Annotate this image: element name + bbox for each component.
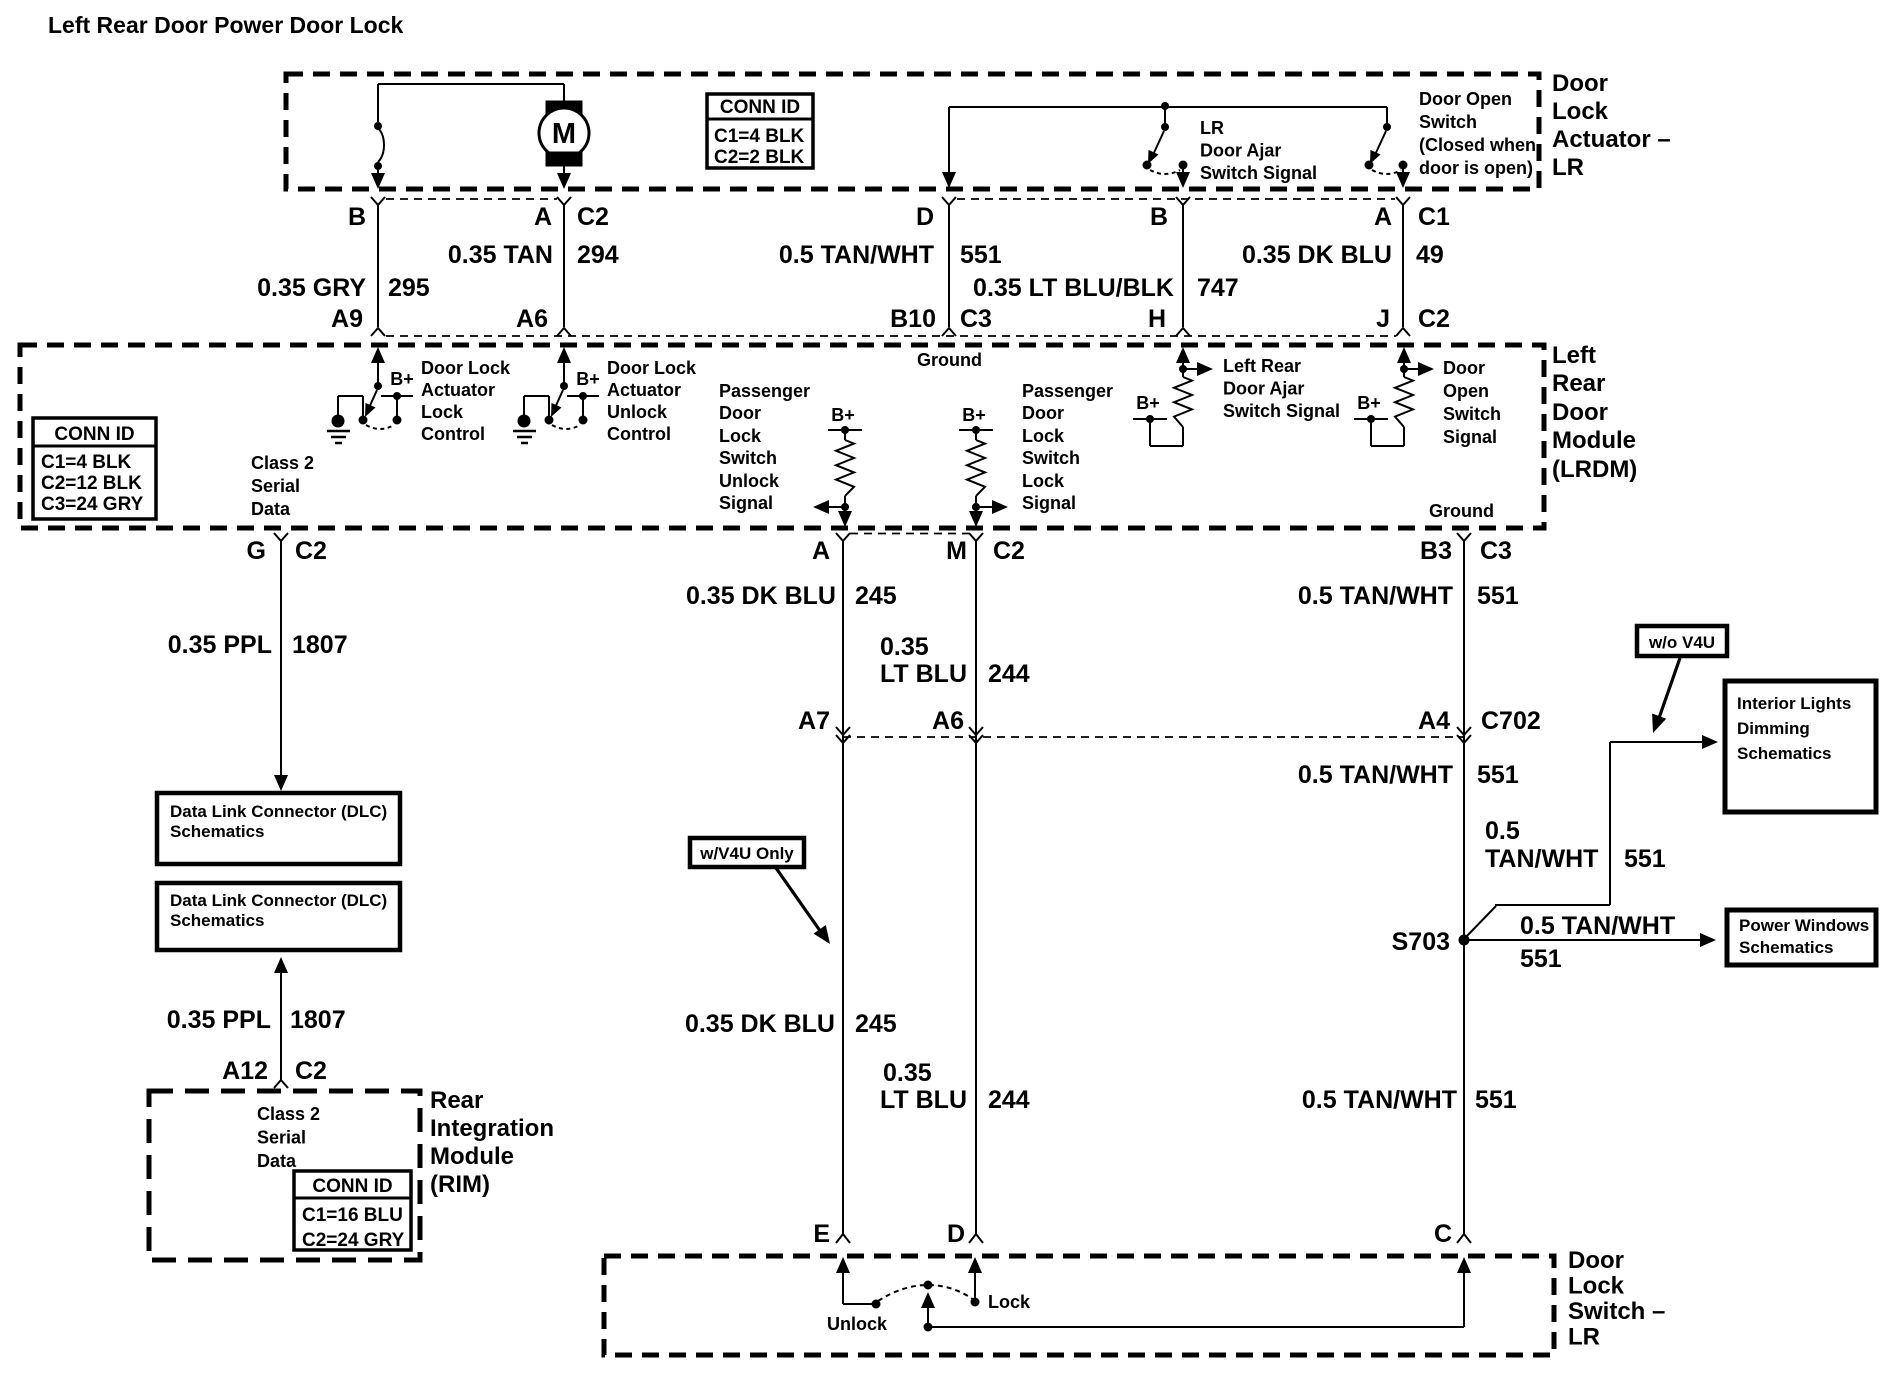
svg-text:244: 244 — [988, 660, 1030, 688]
svg-text:LT BLU: LT BLU — [880, 660, 967, 688]
annotation: LR Door Ajar Switch Signal — [1200, 118, 1317, 183]
wire: branch to interior lights dimming — [1464, 735, 1718, 939]
svg-text:0.35 PPL: 0.35 PPL — [167, 1006, 271, 1034]
label 0.35 DK BLU 245 (lower) — [685, 1010, 897, 1038]
svg-text:C1=4 BLK: C1=4 BLK — [41, 452, 132, 473]
svg-text:Data: Data — [251, 499, 291, 519]
B+ supply (unlock control) — [576, 369, 600, 389]
label 0.35 LT BLU 244 (upper) — [880, 633, 1030, 688]
svg-text:Signal: Signal — [1022, 493, 1076, 513]
leader arrow from w/o V4U to interior lights branch — [1652, 658, 1680, 733]
conn id table (C1=16 BLU / C2=24 GRY) — [294, 1171, 411, 1251]
wire 551 TAN/WHT (ground return) — [1457, 541, 1471, 1234]
svg-text:CONN ID: CONN ID — [54, 424, 134, 445]
switch: door lock actuator unlock control driver — [524, 347, 599, 429]
svg-text:A9: A9 — [331, 305, 363, 333]
contact: lock — [971, 1292, 1032, 1312]
pin J / connector C2 label — [1376, 305, 1450, 336]
resistor: door open switch signal pull-up — [1354, 347, 1434, 446]
label 0.35 DK BLU 49 — [1242, 241, 1444, 269]
svg-text:551: 551 — [1475, 1086, 1517, 1114]
annotation: Left Rear Door Ajar Switch Signal — [1223, 356, 1340, 421]
svg-text:Lock: Lock — [421, 402, 464, 422]
wire 245 DK BLU (unlock signal) — [836, 541, 850, 1234]
leader arrow from w/V4U Only to wire 245 — [776, 868, 830, 944]
svg-text:Signal: Signal — [1443, 427, 1497, 447]
svg-text:C3=24 GRY: C3=24 GRY — [41, 494, 144, 515]
svg-text:Signal: Signal — [719, 493, 773, 513]
svg-text:Actuator: Actuator — [607, 380, 681, 400]
svg-text:0.35 TAN: 0.35 TAN — [448, 241, 553, 269]
wire: door ajar / door open switch bus — [942, 107, 1387, 188]
label 0.35 TAN 294 — [448, 241, 619, 269]
svg-text:Serial: Serial — [257, 1128, 306, 1148]
svg-text:551: 551 — [1477, 582, 1519, 610]
svg-text:door is open): door is open) — [1419, 158, 1533, 178]
box: Data Link Connector (DLC) Schematics (upper) — [157, 793, 400, 864]
svg-text:C3: C3 — [960, 305, 992, 333]
B+ supply (door ajar pull-up) — [1136, 393, 1160, 413]
svg-text:A: A — [812, 537, 830, 565]
svg-text:1807: 1807 — [290, 1006, 346, 1034]
svg-text:Passenger: Passenger — [1022, 381, 1113, 401]
connector C2/C1 in-line dashed face (top) — [386, 198, 1395, 200]
svg-text:Dimming: Dimming — [1737, 719, 1810, 738]
ground symbol (unlock control) — [513, 415, 536, 444]
B+ supply (door open pull-up) — [1357, 393, 1381, 413]
label 0.5 TAN/WHT 551 (above C702) — [1298, 582, 1519, 610]
resistor: lock signal pull-up — [959, 426, 993, 507]
svg-text:LR: LR — [1552, 154, 1584, 181]
svg-text:Door: Door — [1552, 399, 1608, 426]
svg-text:C1=4 BLK: C1=4 BLK — [714, 126, 805, 147]
svg-text:Data Link Connector (DLC): Data Link Connector (DLC) — [170, 802, 387, 821]
svg-text:Door: Door — [1552, 70, 1608, 97]
svg-text:LT BLU: LT BLU — [880, 1086, 967, 1114]
svg-text:0.35 DK BLU: 0.35 DK BLU — [685, 1010, 835, 1038]
svg-text:LR: LR — [1200, 118, 1224, 138]
svg-text:551: 551 — [960, 241, 1002, 269]
svg-text:Door Open: Door Open — [1419, 89, 1512, 109]
node: unlock signal junction — [813, 500, 852, 527]
label 0.35 PPL 1807 (lower) — [167, 1006, 346, 1034]
svg-text:C702: C702 — [1481, 707, 1541, 735]
svg-text:Switch: Switch — [1419, 112, 1477, 132]
annotation: Passenger Door Lock Switch Lock Signal — [1022, 381, 1113, 513]
pin A (unlock signal out) — [812, 533, 850, 565]
svg-text:Module: Module — [1552, 427, 1636, 454]
svg-text:Door: Door — [1022, 403, 1064, 423]
box: Power Windows Schematics — [1727, 910, 1876, 965]
B+ supply (unlock signal pull-up) — [831, 405, 855, 425]
wire 551 TAN/WHT (ground feed) — [948, 205, 950, 327]
svg-text:Switch Signal: Switch Signal — [1200, 163, 1317, 183]
svg-text:A4: A4 — [1418, 707, 1450, 735]
svg-text:Unlock: Unlock — [827, 1314, 888, 1334]
pin D — [916, 197, 956, 231]
label: Left Rear Door Module (LRDM) — [1552, 342, 1637, 483]
svg-text:B+: B+ — [831, 405, 855, 425]
svg-text:B: B — [1150, 203, 1168, 231]
svg-text:Left: Left — [1552, 342, 1596, 369]
switch: door lock actuator lock control driver — [338, 347, 413, 429]
resistor: unlock signal pull-up — [828, 426, 862, 507]
svg-text:0.5 TAN/WHT: 0.5 TAN/WHT — [1298, 761, 1453, 789]
pin B3 / connector C3 label — [1420, 533, 1512, 565]
svg-text:A6: A6 — [516, 305, 548, 333]
splice S703 — [1392, 928, 1470, 956]
svg-text:Unlock: Unlock — [719, 471, 780, 491]
svg-text:Switch –: Switch – — [1568, 1298, 1665, 1325]
svg-text:C2: C2 — [577, 203, 609, 231]
pin B (door ajar) — [1150, 197, 1190, 231]
svg-text:295: 295 — [388, 274, 430, 302]
svg-text:Data: Data — [257, 1151, 297, 1171]
svg-text:Control: Control — [421, 424, 485, 444]
pin A4 / connector C702 label — [1418, 707, 1541, 735]
svg-text:Door: Door — [1568, 1247, 1624, 1274]
svg-text:0.35: 0.35 — [883, 1059, 932, 1087]
svg-text:Actuator –: Actuator – — [1552, 126, 1671, 153]
svg-text:Lock: Lock — [988, 1292, 1031, 1312]
callout box: w/V4U Only — [690, 838, 804, 867]
annotation: Door Open Switch Signal — [1443, 358, 1501, 447]
wire 244 LT BLU (lock signal) — [969, 541, 983, 1234]
pin A6 (C702) — [932, 707, 964, 735]
svg-text:Rear: Rear — [430, 1087, 483, 1114]
svg-text:M: M — [946, 537, 967, 565]
svg-text:Lock: Lock — [719, 426, 762, 446]
node: lock signal junction — [969, 500, 1008, 527]
svg-text:Interior Lights: Interior Lights — [1737, 694, 1851, 713]
box: Interior Lights Dimming Schematics — [1725, 681, 1876, 812]
svg-text:Ground: Ground — [917, 350, 982, 370]
svg-text:0.5 TAN/WHT: 0.5 TAN/WHT — [1302, 1086, 1457, 1114]
label 0.35 DK BLU 245 (upper) — [686, 582, 897, 610]
svg-text:Door Ajar: Door Ajar — [1223, 379, 1304, 399]
switch common pole — [921, 1292, 935, 1332]
pin H — [1148, 305, 1190, 336]
svg-text:B+: B+ — [576, 369, 600, 389]
switch common pivot — [924, 1281, 933, 1290]
callout box: w/o V4U — [1637, 626, 1727, 656]
svg-text:C2=2 BLK: C2=2 BLK — [714, 147, 805, 168]
label: Door Lock Actuator - LR — [1552, 70, 1671, 181]
wire: actuator feed from lock switch to motor — [378, 84, 564, 122]
pin G / connector C2 label — [247, 533, 327, 565]
svg-text:0.5 TAN/WHT: 0.5 TAN/WHT — [779, 241, 934, 269]
svg-text:244: 244 — [988, 1086, 1030, 1114]
svg-text:A6: A6 — [932, 707, 964, 735]
svg-text:(LRDM): (LRDM) — [1552, 456, 1637, 483]
pin A9 — [331, 305, 385, 336]
svg-text:Door Lock: Door Lock — [607, 358, 697, 378]
svg-text:Door: Door — [1443, 358, 1485, 378]
svg-text:Power Windows: Power Windows — [1739, 916, 1869, 935]
conn id table (C1=4 BLK / C2=12 BLK / C3=24 GRY) — [33, 418, 156, 519]
svg-text:Control: Control — [607, 424, 671, 444]
label: Door Lock Switch - LR — [1568, 1247, 1665, 1351]
svg-text:Integration: Integration — [430, 1115, 554, 1142]
svg-text:C1=16 BLU: C1=16 BLU — [302, 1205, 403, 1226]
svg-text:551: 551 — [1520, 945, 1562, 973]
svg-text:B+: B+ — [1136, 393, 1160, 413]
junction on bus for LR door ajar switch — [1161, 102, 1169, 110]
wire: lock contact feed (D) — [968, 1257, 982, 1302]
svg-text:Class 2: Class 2 — [251, 453, 314, 473]
svg-text:J: J — [1376, 305, 1390, 333]
label 0.5 TAN/WHT 551 (branch to interior lights) — [1485, 817, 1666, 873]
svg-text:LR: LR — [1568, 1324, 1600, 1351]
svg-text:0.35 DK BLU: 0.35 DK BLU — [1242, 241, 1392, 269]
wire: unlock contact feed (E) — [836, 1257, 875, 1304]
svg-text:Schematics: Schematics — [170, 911, 265, 930]
svg-text:0.35 PPL: 0.35 PPL — [168, 631, 272, 659]
svg-text:Door: Door — [719, 403, 761, 423]
svg-text:C2=24 GRY: C2=24 GRY — [302, 1230, 405, 1251]
pin A7 — [798, 707, 830, 735]
wire 49 DK BLU (door open signal) — [1402, 205, 1404, 327]
svg-text:C2: C2 — [295, 1057, 327, 1085]
door lock switch dashed enclosure — [604, 1256, 1554, 1355]
motor M: door lock actuator motor — [539, 84, 589, 189]
svg-text:C3: C3 — [1480, 537, 1512, 565]
label 0.35 GRY 295 — [257, 274, 430, 302]
contact: unlock — [827, 1300, 888, 1335]
door lock actuator LR dashed enclosure — [286, 74, 1539, 189]
pin A / connector C2 label — [534, 197, 609, 231]
LRDM connector face (thin dashed) — [386, 335, 1396, 337]
label 0.35 LT BLU/BLK 747 — [973, 274, 1239, 302]
svg-text:C2: C2 — [993, 537, 1025, 565]
B+ supply (lock signal pull-up) — [962, 405, 986, 425]
svg-text:Ground: Ground — [1429, 501, 1494, 521]
svg-text:(Closed when: (Closed when — [1419, 135, 1536, 155]
svg-text:0.5 TAN/WHT: 0.5 TAN/WHT — [1298, 582, 1453, 610]
connector C2 in-line dashed face (below LRDM) — [850, 533, 969, 535]
svg-text:H: H — [1148, 305, 1166, 333]
annotation: Class 2 Serial Data (LRDM) — [251, 453, 314, 519]
wire 295 GRY (lock control) — [377, 205, 379, 327]
svg-text:A: A — [534, 203, 552, 231]
svg-text:Unlock: Unlock — [607, 402, 668, 422]
label 0.5 TAN/WHT 551 (lower run) — [1302, 1086, 1517, 1114]
svg-text:D: D — [947, 1220, 965, 1248]
pin A / connector C1 label — [1374, 197, 1450, 231]
switch: LR door ajar switch — [1143, 106, 1191, 188]
left rear door module dashed enclosure — [20, 345, 1544, 528]
svg-text:CONN ID: CONN ID — [312, 1176, 392, 1197]
svg-text:A12: A12 — [222, 1057, 268, 1085]
svg-text:S703: S703 — [1392, 928, 1450, 956]
label 0.5 TAN/WHT 551 (below C702) — [1298, 761, 1519, 789]
pin D (switch) — [947, 1220, 983, 1248]
svg-text:Serial: Serial — [251, 476, 300, 496]
label 0.5 TAN/WHT 551 — [779, 241, 1002, 269]
svg-text:Schematics: Schematics — [1739, 938, 1834, 957]
svg-text:TAN/WHT: TAN/WHT — [1485, 845, 1598, 873]
svg-text:E: E — [813, 1220, 830, 1248]
svg-text:w/o V4U: w/o V4U — [1648, 633, 1715, 652]
svg-text:Open: Open — [1443, 381, 1489, 401]
svg-text:w/V4U Only: w/V4U Only — [699, 844, 794, 863]
pin C (switch) — [1434, 1220, 1471, 1248]
svg-text:C2=12 BLK: C2=12 BLK — [41, 473, 142, 494]
pin A6 — [516, 305, 571, 336]
connector C702 in-line dashed face — [843, 736, 1464, 738]
wire 294 TAN (unlock control) — [563, 205, 565, 327]
svg-text:A7: A7 — [798, 707, 830, 735]
svg-text:245: 245 — [855, 582, 897, 610]
svg-text:49: 49 — [1416, 241, 1444, 269]
pin B10 / connector C3 label — [890, 305, 992, 336]
svg-text:551: 551 — [1624, 845, 1666, 873]
svg-text:(RIM): (RIM) — [430, 1171, 490, 1198]
annotation: Class 2 Serial Data (RIM) — [257, 1104, 320, 1171]
svg-text:294: 294 — [577, 241, 619, 269]
svg-text:0.35 DK BLU: 0.35 DK BLU — [686, 582, 836, 610]
resistor: LR door ajar switch signal pull-up — [1133, 347, 1213, 446]
switch blade arc (door lock switch) — [878, 1285, 974, 1301]
wire 1807 PPL (class 2 serial data, upper) — [274, 541, 288, 791]
svg-text:B: B — [348, 203, 366, 231]
annotation: Ground (B3 exit) — [1429, 501, 1494, 521]
svg-text:Data Link Connector (DLC): Data Link Connector (DLC) — [170, 891, 387, 910]
wire 747 LT BLU/BLK (door ajar signal) — [1182, 205, 1184, 327]
svg-text:Schematics: Schematics — [1737, 744, 1832, 763]
title: Left Rear Door Power Door Lock — [48, 12, 403, 38]
svg-text:M: M — [552, 118, 576, 150]
rear integration module dashed enclosure — [149, 1091, 420, 1260]
svg-text:C1: C1 — [1418, 203, 1450, 231]
wire 1807 PPL (class 2 serial data, lower) — [274, 957, 288, 1080]
svg-text:747: 747 — [1197, 274, 1239, 302]
label 0.35 PPL 1807 (upper) — [168, 631, 348, 659]
svg-text:B+: B+ — [1357, 393, 1381, 413]
wire: common to pin C — [928, 1257, 1471, 1327]
annotation: Door Open Switch (Closed when door is open) — [1419, 89, 1536, 178]
svg-text:Schematics: Schematics — [170, 822, 265, 841]
svg-text:C2: C2 — [1418, 305, 1450, 333]
annotation: Passenger Door Lock Switch Unlock Signal — [719, 381, 810, 513]
svg-text:245: 245 — [855, 1010, 897, 1038]
label: Rear Integration Module (RIM) — [430, 1087, 554, 1198]
svg-text:551: 551 — [1477, 761, 1519, 789]
svg-text:1807: 1807 — [292, 631, 348, 659]
svg-text:0.35: 0.35 — [880, 633, 929, 661]
svg-text:Lock: Lock — [1552, 98, 1609, 125]
annotation: Ground (B10 entry) — [917, 350, 982, 370]
svg-text:Lock: Lock — [1568, 1273, 1625, 1300]
ground symbol (lock control) — [327, 415, 350, 444]
svg-text:Switch: Switch — [719, 448, 777, 468]
annotation: Door Lock Actuator Lock Control — [421, 358, 511, 444]
svg-text:Left Rear Door Power Door Lock: Left Rear Door Power Door Lock — [48, 12, 403, 38]
svg-text:Door Lock: Door Lock — [421, 358, 511, 378]
svg-text:G: G — [247, 537, 266, 565]
box: Data Link Connector (DLC) Schematics (lower) — [157, 883, 400, 950]
svg-text:Switch Signal: Switch Signal — [1223, 401, 1340, 421]
svg-text:B+: B+ — [390, 369, 414, 389]
svg-text:Door Ajar: Door Ajar — [1200, 141, 1281, 161]
svg-text:Class 2: Class 2 — [257, 1104, 320, 1124]
pin A12 / connector C2 label — [222, 1057, 327, 1088]
label 0.5 TAN/WHT 551 (power windows branch) — [1520, 912, 1675, 973]
svg-text:CONN ID: CONN ID — [720, 97, 800, 118]
svg-text:0.35 GRY: 0.35 GRY — [257, 274, 366, 302]
pin M / connector C2 label — [946, 533, 1025, 565]
svg-text:Switch: Switch — [1443, 404, 1501, 424]
svg-text:Module: Module — [430, 1143, 514, 1170]
label 0.35 LT BLU 244 (lower) — [880, 1059, 1030, 1114]
svg-text:B10: B10 — [890, 305, 936, 333]
svg-text:Actuator: Actuator — [421, 380, 495, 400]
switch: door lock actuator internal switch — [371, 122, 385, 189]
svg-text:Lock: Lock — [1022, 471, 1065, 491]
svg-text:Left Rear: Left Rear — [1223, 356, 1301, 376]
svg-text:Switch: Switch — [1022, 448, 1080, 468]
wire: branch to power windows — [1464, 933, 1716, 947]
svg-text:Rear: Rear — [1552, 370, 1605, 397]
conn id table (C1=4 BLK / C2=2 BLK) — [707, 94, 813, 168]
pin B (actuator C2) — [348, 197, 385, 231]
pin E — [813, 1220, 850, 1248]
svg-text:A: A — [1374, 203, 1392, 231]
svg-text:0.5 TAN/WHT: 0.5 TAN/WHT — [1520, 912, 1675, 940]
svg-text:Lock: Lock — [1022, 426, 1065, 446]
svg-text:0.35 LT BLU/BLK: 0.35 LT BLU/BLK — [973, 274, 1174, 302]
B+ supply (lock control) — [390, 369, 414, 389]
annotation: Door Lock Actuator Unlock Control — [607, 358, 697, 444]
svg-text:Passenger: Passenger — [719, 381, 810, 401]
svg-text:B+: B+ — [962, 405, 986, 425]
svg-text:C2: C2 — [295, 537, 327, 565]
svg-text:C: C — [1434, 1220, 1452, 1248]
svg-text:0.5: 0.5 — [1485, 817, 1520, 845]
svg-text:B3: B3 — [1420, 537, 1452, 565]
switch: door open switch — [1365, 107, 1411, 188]
svg-text:D: D — [916, 203, 934, 231]
